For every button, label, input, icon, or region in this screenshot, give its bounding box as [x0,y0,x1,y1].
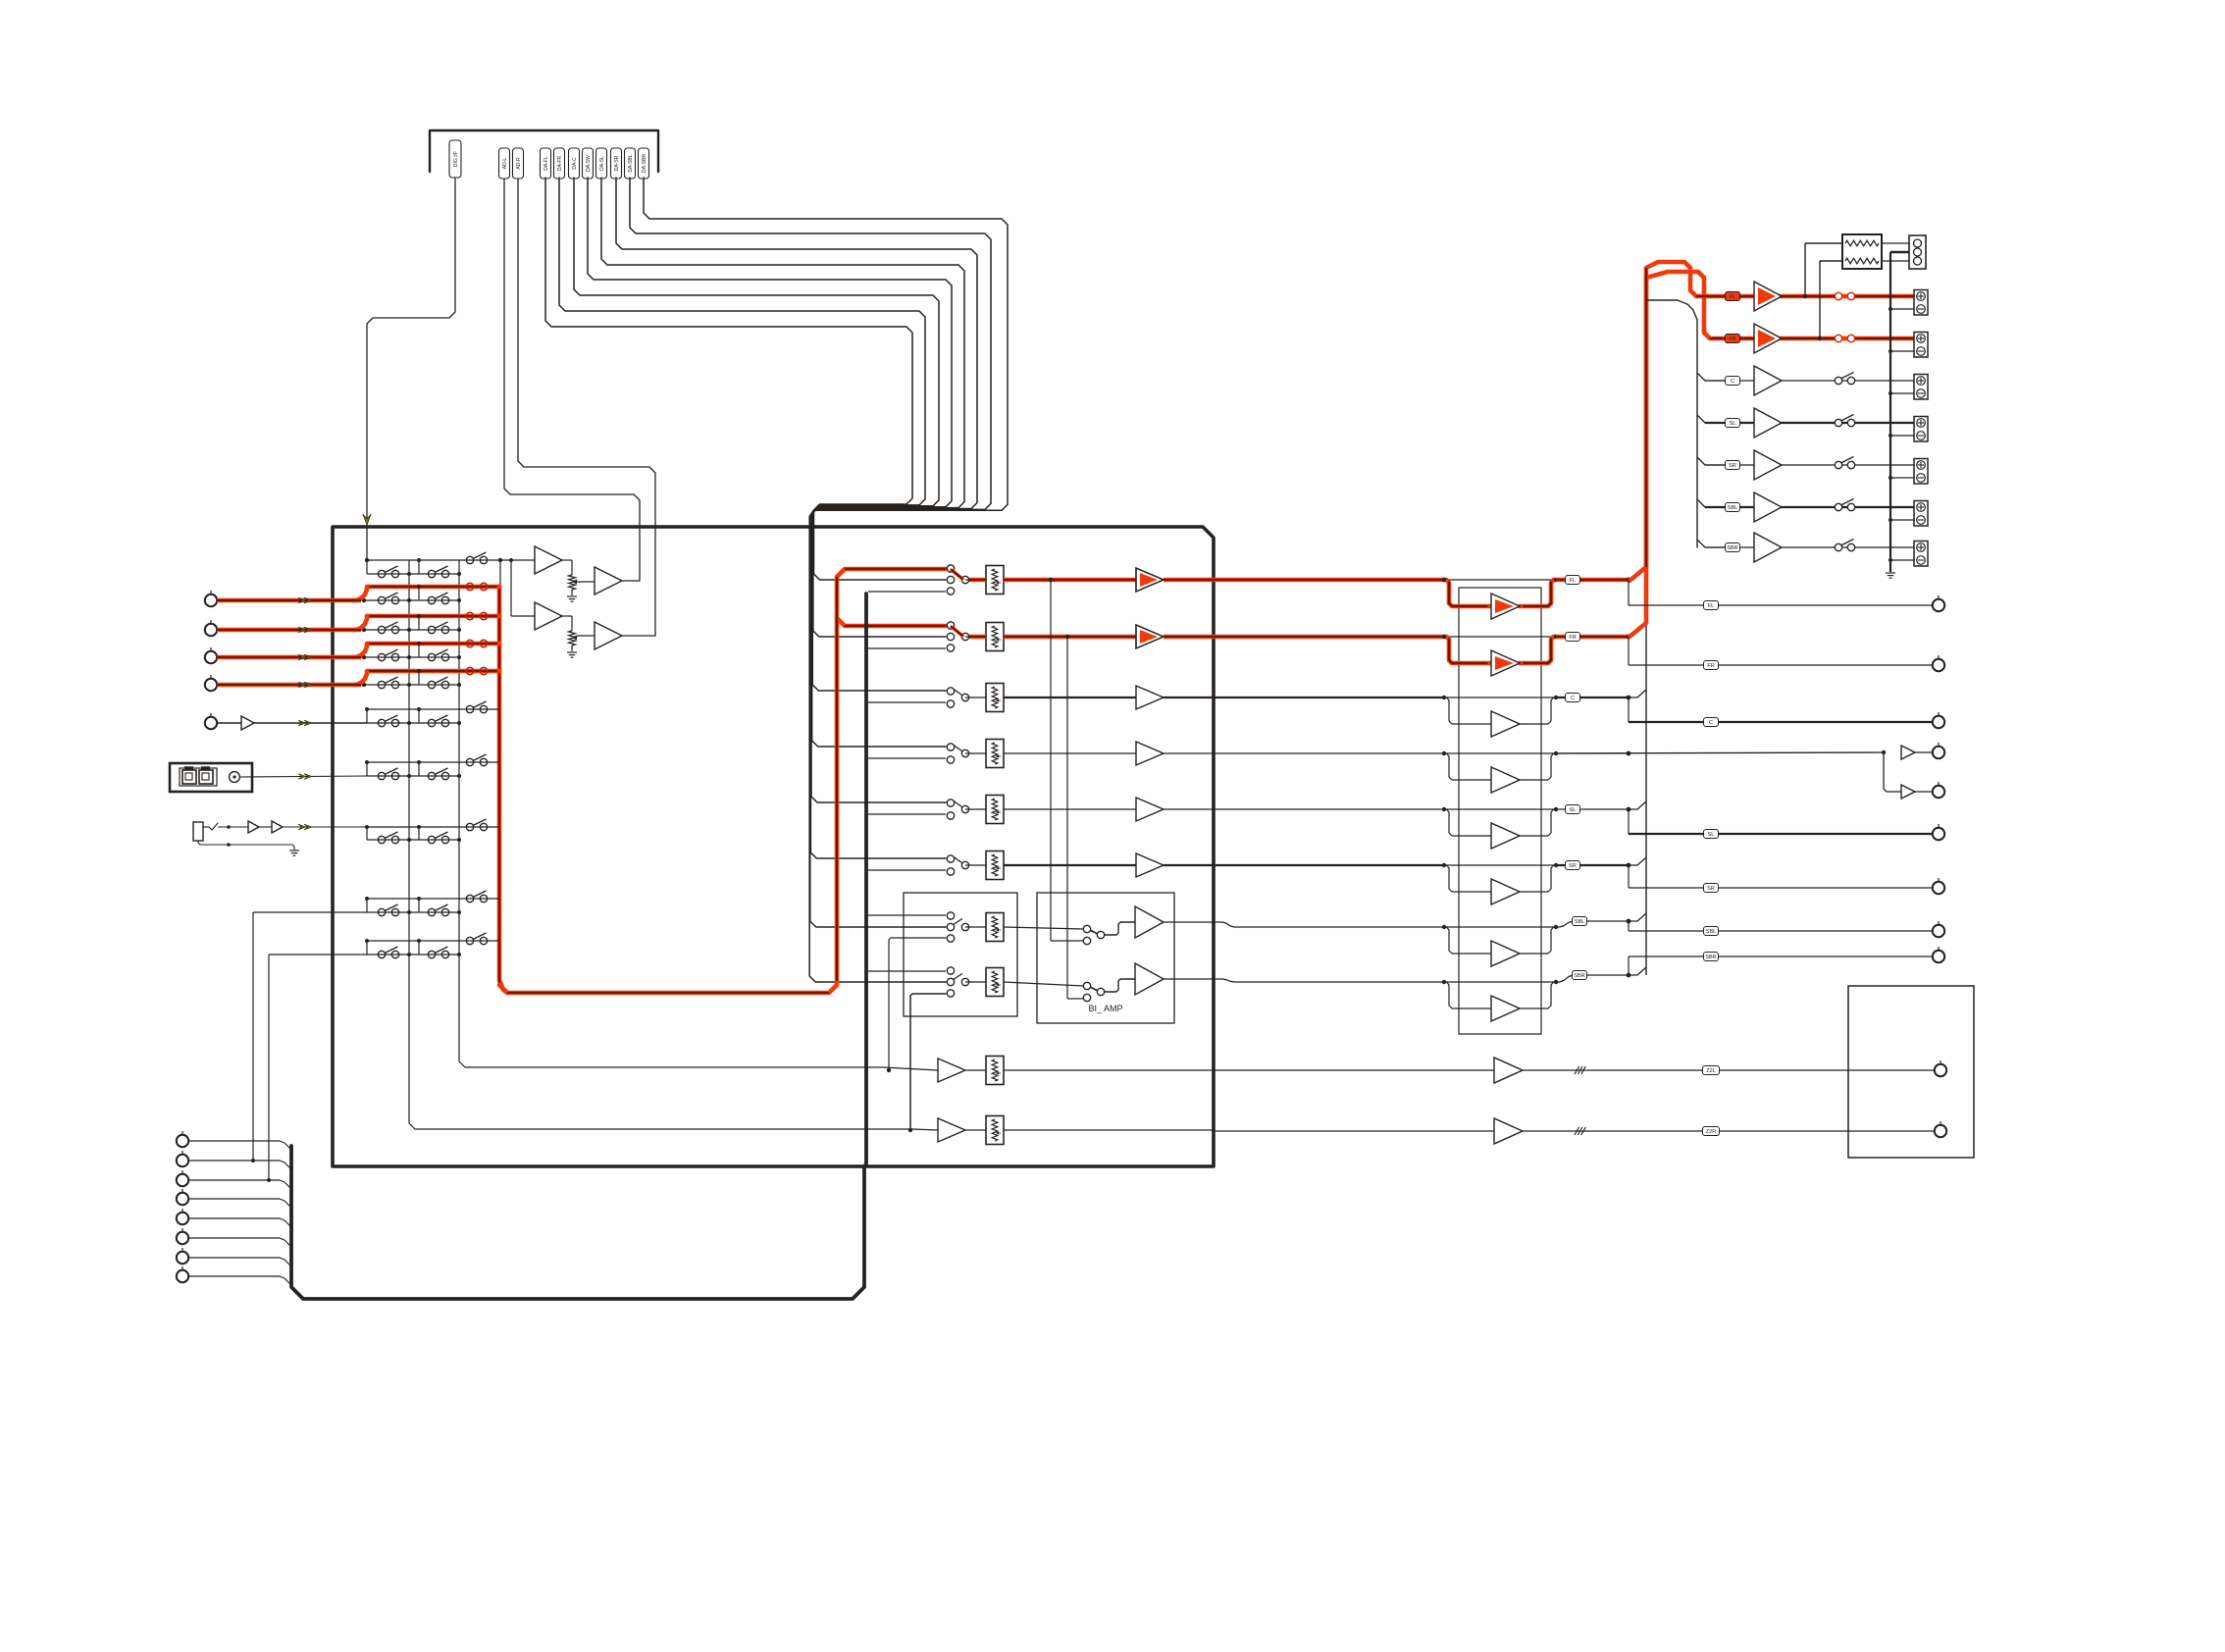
node biamp tap FL [1049,578,1053,582]
selector row 7 wires [367,761,499,763]
wire row 7 to tone stage [1214,922,1444,927]
ADC buffer U1 [535,546,562,574]
tag SBR [1573,971,1587,980]
wire amp row C [1697,373,1725,381]
wire terminal minus to return bus [1890,350,1914,352]
wire biamp amp out [1164,921,1214,923]
tag Z2L [1703,1066,1720,1075]
red highlight loop bottom [499,569,946,993]
optical connector group [180,768,217,786]
speaker relay K2 [1834,336,1856,340]
wire tone bypass 2 [1444,636,1556,638]
wire volume to preamp [1004,579,1136,581]
wire switch to volume [965,636,986,638]
zone bus bundle [291,594,866,1299]
connector tag DA-SL [596,148,607,179]
divider resistor R1 [562,559,572,561]
arrow into selector box [363,514,371,525]
svg-text:DIG I/F: DIG I/F [453,151,459,167]
wire AD-R from ADC buffer [518,179,655,636]
wire row 6 to bus [1556,864,1629,866]
wire biamp switch to amp [1105,979,1135,992]
svg-text:DA-SW: DA-SW [586,155,592,172]
switch S1C [466,556,473,563]
buffer U6 [248,821,259,833]
optical connector 1 [182,770,196,784]
node sw feed [887,1068,891,1072]
selector row 9 wires [367,898,499,900]
tone loop 3 [1444,697,1491,724]
zone buffer UZ1 [1494,1058,1523,1083]
speaker terminal FR [1914,333,1928,358]
ground [567,595,577,597]
selector row 1 wires [367,559,511,561]
wire biamp switch to amp [1105,922,1135,935]
volume control VRS2 [986,1116,1004,1145]
wire switch to volume [965,579,986,581]
node biamp tap FR [1065,635,1069,639]
wire biamp tap stub R [1067,998,1083,1000]
zone jack L [1935,1064,1946,1076]
switch S8C [466,823,473,830]
wire row 4 to tone stage [1214,752,1444,754]
preout jack SR [1933,882,1944,894]
svg-text:SBR: SBR [1727,545,1737,551]
wire row7 to biamp [1004,927,1083,929]
wire row 1 to bus [1556,578,1629,583]
wire sw row [965,1069,986,1071]
wire riser to selector row 9 [252,912,254,1161]
volume control VRS1 [986,1057,1004,1085]
ground [289,850,299,852]
zone connector pin 8 [177,1270,188,1282]
speaker terminal FL [1914,290,1928,316]
switch S6B [428,719,435,726]
wire switch to volume [965,697,986,698]
node [227,825,231,829]
channel selector switch SW6 [947,855,954,862]
tone amp UT8 [1491,996,1520,1021]
wire row 5 to bus [1556,808,1629,810]
channel selector switch SW8 [947,967,954,974]
arrow input 3 [298,654,306,660]
preout jack FR [1933,659,1944,671]
svg-text:SBL: SBL [1706,929,1716,935]
channel selector switch SW1 [947,565,954,572]
tone amp UT4 [1491,767,1520,793]
wire volume to preamp [1004,752,1136,754]
wire row to bus bevel [1629,967,1646,975]
preamp U13 [1136,742,1164,765]
speaker terminal SBR [1914,542,1928,567]
arrow tuner [298,720,306,726]
svg-text:Z2R: Z2R [1706,1129,1716,1135]
amp feed distribution [1646,300,1697,547]
selector row 4 wires [367,642,499,646]
volume control VR5 [986,796,1004,824]
tone loop 5 [1444,809,1491,836]
resistor RL2 [1845,258,1879,264]
speaker relay K1 [1834,294,1856,298]
tone loop 8 [1444,982,1491,1008]
svg-text:SR: SR [1707,886,1715,892]
wire pin [188,1141,291,1150]
wire pin [188,1258,291,1266]
optical connector 2 [199,770,213,784]
tag preout [1704,830,1719,839]
wire resistors to terminal block [1882,242,1909,244]
speaker relay K7 [1835,543,1841,550]
wire row 8 to bus [1556,975,1629,982]
wire terminal minus to return bus [1890,435,1914,437]
arrow phones [298,824,306,830]
svg-text:AD-L: AD-L [502,158,508,170]
input jack IN2 [205,624,217,636]
tag Z2R [1703,1127,1720,1136]
wire preamp out [1164,752,1214,754]
wire row 5 to tone stage [1214,808,1444,810]
wire amp row SR [1697,457,1725,465]
wire biamp tap stub L [1051,940,1083,942]
preamp U10 [1136,568,1164,592]
svg-text:DA-SBR: DA-SBR [642,154,647,173]
wire pin [188,1218,291,1227]
wire preamp out [1164,636,1214,638]
preout jack C [1933,716,1944,728]
selector row 8 wires [367,826,499,828]
arrow input 4 [298,682,306,688]
node sw feed [908,1128,912,1132]
channel selector switch SW3 [947,688,954,695]
wire pin [188,1161,291,1169]
tag FL [1566,576,1580,585]
tone amp box [1459,588,1541,1034]
volume control VR2 [986,623,1004,651]
arrow input 1 [298,597,306,603]
wire tone bypass 8 [1444,981,1556,983]
ADC buffer U2 [535,602,562,630]
switch S2C [466,583,473,590]
wire return bus to block [1890,251,1909,253]
svg-text:DA-SL: DA-SL [599,156,605,171]
wire switch to volume [965,981,986,983]
wire amp row SBL [1697,499,1725,507]
svg-text:SL: SL [1708,832,1715,838]
biamp switch SWB1 [1089,930,1098,935]
wire amp row SBR [1697,540,1725,547]
buffer U7 [272,821,283,833]
wire terminal minus to return bus [1890,519,1914,521]
wire preout drop [1628,637,1630,665]
volume control VR3 [986,684,1004,712]
channel selector switch SW7 [947,912,954,919]
tone loop 4 [1444,753,1491,780]
wire tone bypass 7 [1444,926,1556,928]
tag preout [1704,884,1719,893]
wire volume to preamp [1004,697,1136,698]
wire zone bus branch [868,914,946,916]
svg-text:DA-SR: DA-SR [614,155,620,171]
wire tuner input [254,722,367,724]
record bus 1 [409,560,912,1129]
zone connector pin 5 [177,1213,188,1224]
preamp U14 [1136,798,1164,821]
wire row 1 to tone stage [1214,578,1444,583]
wire SW2 branch [1884,752,1901,792]
wire zone [1523,1130,1935,1132]
switch S7C [466,758,473,765]
resistor RL1 [1845,240,1879,246]
wire terminal minus to return bus [1890,477,1914,479]
speaker-select sub box [904,893,1017,1016]
svg-text:SR: SR [1729,463,1736,469]
biamp switch SWB2 [1089,987,1098,992]
wire bundle DA outputs fan [545,178,946,580]
wire sw feed stub [889,938,946,1070]
switch S4B [428,653,435,660]
switch S10A [378,951,385,957]
node ADC in [509,558,513,562]
tag amp SR [1726,461,1740,470]
load resistor box [1842,234,1882,269]
wire terminal minus to return bus [1890,559,1914,561]
wire U4 out [622,635,655,637]
wire tap to U4 [577,635,595,637]
wire row 2 to bus [1556,635,1629,640]
preamp U12 [1136,686,1164,709]
ADC driver U3 [595,567,622,594]
zone connector pin 1 [177,1135,188,1147]
wire preout drop [1628,921,1630,931]
power amp UP5 [1754,450,1782,480]
svg-text:C: C [1571,696,1575,701]
wire DIGITAL I/F to selector box [367,178,455,560]
wire to SW1 jack [1915,751,1933,753]
volume control VR4 [986,740,1004,768]
wire tone bypass 3 [1444,697,1556,698]
biamp amp UB1 [1135,906,1164,938]
channel selector switch SW5 [947,800,954,806]
switch S8B [428,836,435,843]
wire row 3 to tone stage [1214,697,1444,698]
power amp UP4 [1754,408,1782,438]
svg-text:FR: FR [1569,635,1576,641]
power amp UP2 [1754,324,1782,353]
tag amp SBL [1726,503,1740,512]
svg-text:Z2L: Z2L [1706,1068,1715,1074]
switch S2A [378,596,385,603]
switch S1B [428,570,435,577]
ADC red bus [499,587,507,993]
switch S4A [378,653,385,660]
ground [567,651,577,653]
wire row to bus bevel [1629,801,1646,809]
DSP connector bracket [430,130,658,172]
switch S6A [378,719,385,726]
input jack TUNER [205,717,217,729]
switch S6C [466,705,473,712]
wire zone bus branch [868,647,946,649]
record bus 2 [459,560,883,1067]
preamp U15 [1136,853,1164,877]
wire tone bypass 1 [1444,579,1556,581]
wire zone bus branch [868,869,946,871]
wire input 4 red path [217,683,361,688]
connector tag DA-FL [541,148,551,179]
wire tone bypass 4 [1444,752,1556,754]
wire to SW2 jack [1915,791,1933,793]
speaker relay K3 [1835,377,1841,384]
tone amp UT7 [1491,941,1520,966]
zone connector pin 3 [177,1174,188,1186]
power amp UP1 [1754,282,1782,311]
wire pin [188,1180,291,1189]
tag amp SBR [1726,543,1740,552]
wire pin [188,1238,291,1247]
zone buffer UZ2 [1494,1118,1523,1144]
wire row to bus bevel [1629,690,1646,697]
speaker terminal SR [1914,459,1928,485]
wire row 3 to bus [1556,697,1629,698]
wire zone bus branch [868,757,946,759]
selector row 5 wires [367,669,499,674]
connector tag AD-R [513,148,524,179]
wire phones feed [283,826,499,828]
wire row to bus bevel [1629,913,1646,921]
wire switch to volume [965,864,986,866]
preout jack SW1 [1933,747,1944,758]
svg-text:DA-SBL: DA-SBL [628,154,634,172]
wire coax input [239,776,367,777]
svg-text:FL: FL [1570,578,1576,584]
buffer U5 [217,722,241,724]
speaker relay K4 [1835,419,1841,426]
tag SR [1566,861,1580,870]
wire zone bus branch [868,701,946,703]
divider resistor R2 [562,615,572,617]
svg-text:SBR: SBR [1574,973,1584,979]
wire to ADC buffer U1 [511,559,535,561]
switch S4C [466,640,473,646]
svg-text:BI_ AMP: BI_ AMP [1088,1004,1122,1013]
switch S2B [428,596,435,603]
wire pin [188,1276,291,1285]
tag SL [1566,805,1580,814]
wire zone [1523,1069,1935,1071]
arrow coax [298,774,306,780]
node amp FR junction [1818,336,1822,340]
tag SBL [1573,917,1587,926]
speaker return bus [1889,252,1891,572]
wire zone bus branch [868,970,946,972]
svg-text:SL: SL [1570,807,1577,813]
wire riser to selector row 10 [268,955,270,1180]
zone line 1 [1214,1069,1494,1071]
zone connector pin 6 [177,1232,188,1244]
wire terminal minus to return bus [1890,308,1914,310]
switch S9A [378,908,385,915]
tag amp SL [1726,419,1740,428]
speaker relay K6 [1835,503,1841,510]
power amp UP6 [1754,492,1782,522]
wire preout drop [1628,580,1630,605]
power amp UP7 [1754,533,1782,562]
selector row 2 wires [367,585,499,590]
selector row 3 wires [367,614,499,619]
speaker terminal SL [1914,417,1928,442]
wire pin [188,1199,291,1208]
wire row 7 to bus [1556,921,1629,927]
node amp FL junction [1803,294,1807,298]
tone amp UT1 [1491,594,1520,619]
tag preout [1704,718,1719,727]
switch S5C [466,667,473,674]
speaker relay K5 [1835,461,1841,468]
svg-text:FR: FR [1707,663,1714,669]
tone amp UT3 [1491,711,1520,737]
node riser A [251,1159,255,1162]
wire preout drop [1628,956,1630,975]
svg-text:FL: FL [1708,603,1714,609]
wire volume to preamp [1004,808,1136,810]
tag preout [1704,601,1719,610]
zone output box [1848,986,1974,1158]
svg-text:SL: SL [1730,421,1736,427]
wire switch to volume [965,752,986,754]
switch S10C [466,937,473,944]
wire SW channel to preouts [1556,752,1884,753]
volume control VR1 [986,566,1004,594]
wire tone bypass 5 [1444,808,1556,810]
selector row 10 wires [367,940,499,942]
svg-text:DA-C: DA-C [572,157,578,170]
wire input 2 red path [217,628,361,633]
sw preout buffer U31 [1901,785,1915,799]
tag FR [1566,633,1580,642]
preout jack SBR [1933,951,1944,962]
biamp amp UB2 [1135,963,1164,995]
zone connector pin 2 [177,1155,188,1166]
red bus FL/FR riser [1630,262,1914,581]
zone connector pin 7 [177,1252,188,1264]
svg-text:C: C [1709,720,1713,726]
connector tag DA-C [569,148,580,179]
tag amp C [1726,377,1740,386]
power amp UP3 [1754,366,1782,395]
selector row 6 wires [367,708,499,710]
digital input box [170,763,252,792]
input jack IN3 [205,651,217,663]
volume control VR6 [986,852,1004,880]
preout jack SBL [1933,925,1944,937]
input jack IN4 [205,679,217,691]
wire U3 out [622,580,640,582]
node riser B [267,1178,271,1182]
svg-text:SBL: SBL [1575,919,1584,925]
crossing marks [1575,1127,1579,1135]
channel selector switch SW2 [947,622,954,629]
switch S7B [428,772,435,779]
wire biamp feed L [1050,580,1052,941]
speaker terminal SBL [1914,501,1928,527]
switch S3A [378,626,385,633]
connector tag AD-L [499,148,510,179]
wire row 4 to bus [1556,752,1629,754]
ADC driver U4 [595,622,622,649]
wire terminal minus to return bus [1890,392,1914,394]
wire volume to preamp [1004,864,1136,866]
connector tag DA-SR [611,148,622,179]
